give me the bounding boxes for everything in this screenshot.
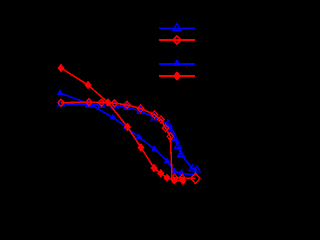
series S1: blue open-triangle curve bbox=[58, 100, 201, 172]
legend entry 4: red filled diamond bbox=[159, 71, 195, 81]
legend entry 3: blue filled triangle bbox=[159, 59, 195, 66]
series S2: red open-diamond curve bbox=[58, 99, 200, 184]
legend entry 1: blue open triangle bbox=[159, 23, 195, 30]
legend entry 2: red open diamond bbox=[159, 36, 195, 44]
series S4: red filled-diamond curve bbox=[57, 64, 186, 185]
series S3: blue filled-triangle curve bbox=[57, 89, 197, 175]
